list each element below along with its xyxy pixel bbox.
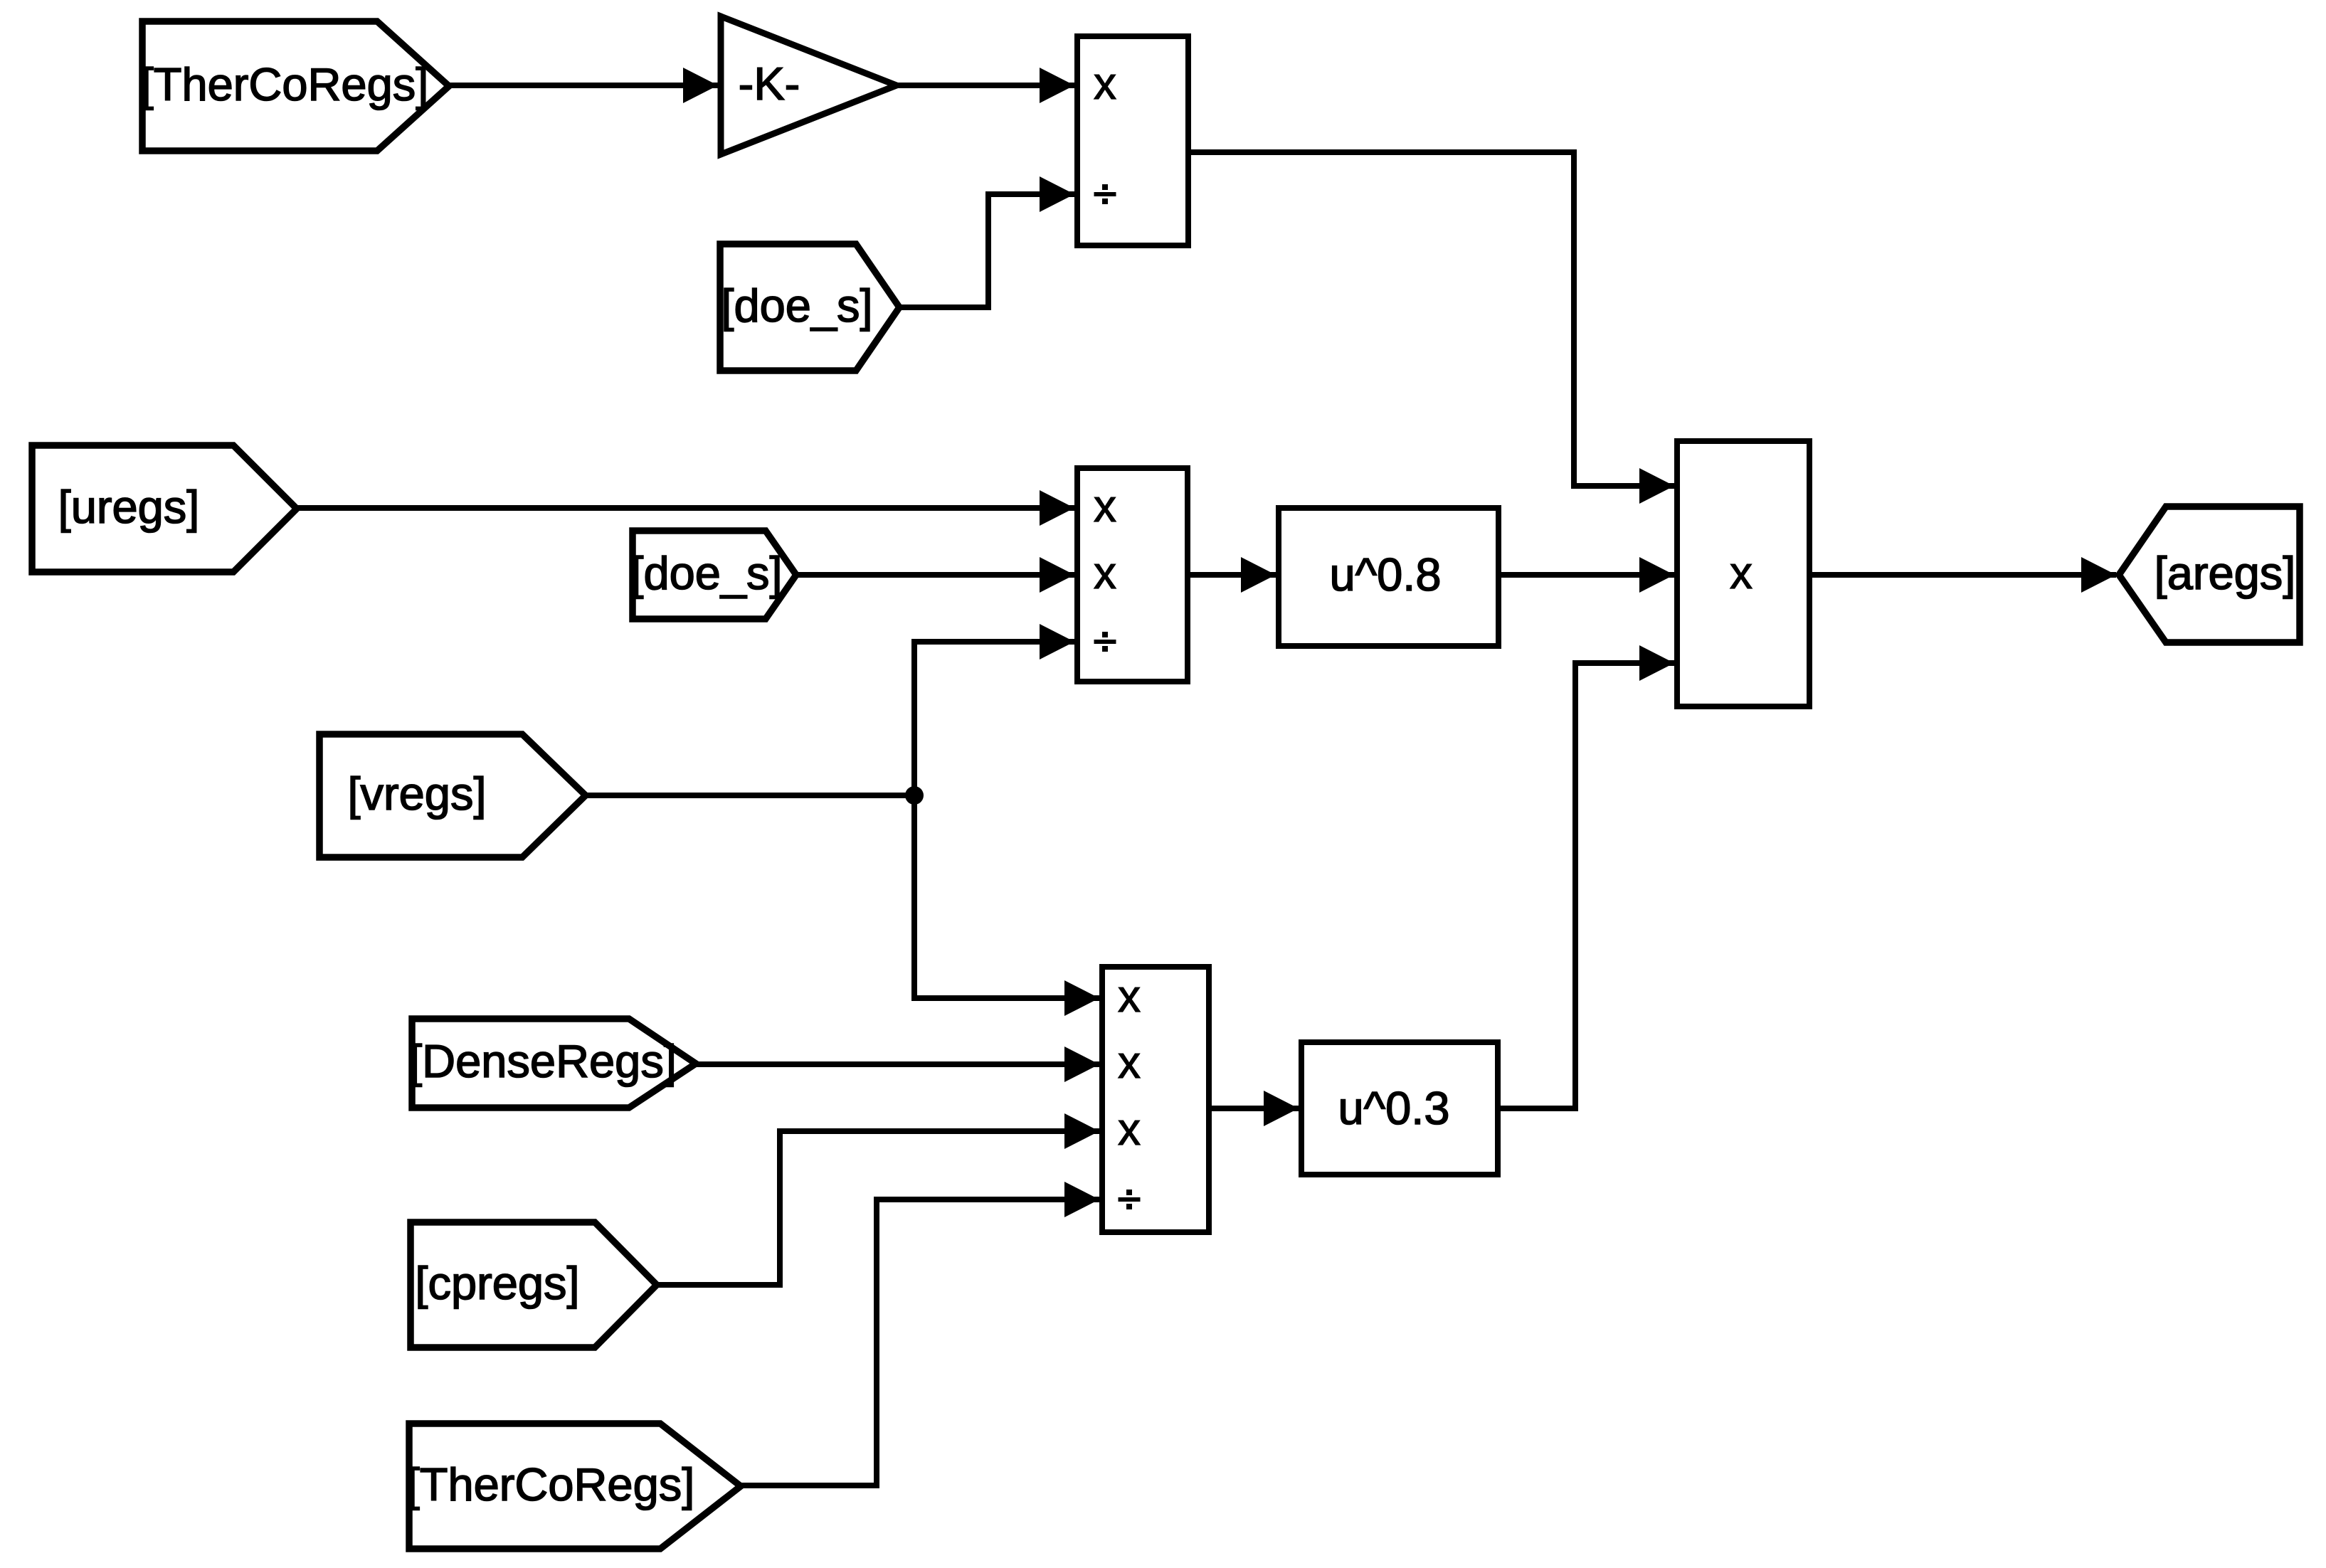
svg-text:x: x: [1094, 58, 1116, 109]
svg-text:[DenseRegs]: [DenseRegs]: [409, 1035, 677, 1087]
svg-text:[TherCoRegs]: [TherCoRegs]: [141, 58, 429, 110]
svg-text:[doe_s]: [doe_s]: [721, 280, 872, 332]
svg-text:[doe_s]: [doe_s]: [630, 547, 782, 599]
svg-text:x: x: [1118, 970, 1141, 1022]
svg-text:-K-: -K-: [739, 58, 800, 110]
svg-text:[aregs]: [aregs]: [2155, 547, 2296, 599]
svg-text:x: x: [1094, 480, 1116, 531]
svg-text:[uregs]: [uregs]: [58, 481, 200, 533]
svg-text:u^0.8: u^0.8: [1329, 549, 1441, 600]
svg-text:[vregs]: [vregs]: [347, 768, 486, 820]
svg-text:[cpregs]: [cpregs]: [415, 1257, 579, 1309]
svg-text:u^0.3: u^0.3: [1338, 1082, 1449, 1134]
svg-text:[TherCoRegs]: [TherCoRegs]: [407, 1458, 695, 1510]
svg-text:x: x: [1730, 547, 1753, 598]
svg-text:x: x: [1094, 547, 1116, 598]
svg-text:x: x: [1118, 1103, 1141, 1155]
svg-text:x: x: [1118, 1037, 1141, 1088]
